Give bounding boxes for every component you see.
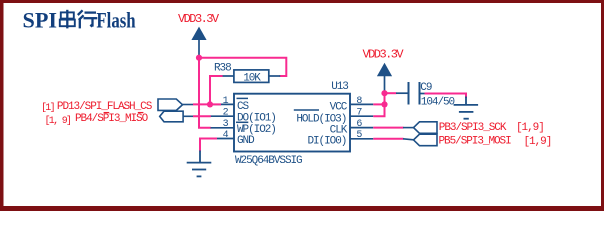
svg-text:GND: GND xyxy=(237,135,255,147)
pin name CS xyxy=(237,98,250,113)
pin name HOLD(IO3) xyxy=(294,110,347,126)
IC U13 W25Q64BVSSIG xyxy=(234,81,350,167)
port PB4/SPI3_MISO connector xyxy=(160,111,194,122)
junction node VDD right cap xyxy=(381,90,387,96)
svg-text:[1,9]: [1,9] xyxy=(516,122,544,134)
wire CS net pin1 xyxy=(193,103,221,105)
svg-text:[1, 9]: [1, 9] xyxy=(45,115,71,127)
wire VCC pin8 to node xyxy=(373,103,384,105)
pin 4 lead xyxy=(211,138,235,140)
label [1] PD13/SPI_FLASH_CS xyxy=(41,101,153,114)
svg-text:10K: 10K xyxy=(243,73,261,85)
svg-text:PB4/SPI3_MISO: PB4/SPI3_MISO xyxy=(75,113,149,125)
pin 2 lead xyxy=(211,115,235,117)
pin name DO(IO1) xyxy=(236,113,276,125)
svg-text:Flash: Flash xyxy=(96,8,135,33)
svg-text:[1,9]: [1,9] xyxy=(524,136,552,148)
svg-text:R38: R38 xyxy=(214,63,231,75)
pin 8 lead xyxy=(350,103,373,105)
wire VDD top horizontal to resistor right xyxy=(199,58,286,76)
svg-text:U13: U13 xyxy=(331,81,348,93)
svg-text:W25Q64BVSSIG: W25Q64BVSSIG xyxy=(235,155,302,167)
svg-text:VDD3.3V: VDD3.3V xyxy=(363,48,405,62)
port PD13/SPI_FLASH_CS connector xyxy=(158,99,193,110)
svg-text:104/50: 104/50 xyxy=(421,97,455,109)
label [1, 9] PB4/SPI3_MISO xyxy=(45,113,149,127)
pin 1 lead xyxy=(211,103,235,105)
power symbol VDD3.3V right xyxy=(377,63,392,92)
svg-text:VDD3.3V: VDD3.3V xyxy=(178,12,220,26)
pin 3 lead xyxy=(211,127,235,129)
svg-text:PB3/SPI3_SCK: PB3/SPI3_SCK xyxy=(439,122,507,134)
svg-text:6: 6 xyxy=(356,119,362,130)
svg-text:4: 4 xyxy=(223,130,229,141)
svg-text:CLK: CLK xyxy=(330,124,348,136)
svg-text:PB5/SPI3_MOSI: PB5/SPI3_MOSI xyxy=(439,136,512,148)
wire VDD drop to WP pin3 xyxy=(199,58,211,128)
wire resistor left to pin1 node xyxy=(210,76,223,104)
wire CLK pin6 xyxy=(373,127,403,129)
svg-text:DI(IO0): DI(IO0) xyxy=(307,136,346,148)
ground symbol right xyxy=(454,97,479,119)
svg-text:1: 1 xyxy=(223,96,229,107)
svg-text:7: 7 xyxy=(356,108,362,119)
svg-text:SPI: SPI xyxy=(23,8,58,33)
svg-text:PD13/SPI_FLASH_CS: PD13/SPI_FLASH_CS xyxy=(57,101,153,113)
port PB5/SPI3_MOSI connector xyxy=(403,134,437,146)
svg-text:3: 3 xyxy=(223,119,229,130)
pin 7 lead xyxy=(350,115,373,117)
svg-text:[1]: [1] xyxy=(41,102,54,114)
label PB5/SPI3_MOSI [1,9] xyxy=(439,136,552,148)
wire MOSI pin5 xyxy=(373,138,403,140)
svg-text:C9: C9 xyxy=(420,82,432,94)
svg-text:5: 5 xyxy=(356,130,362,141)
capacitor C9 xyxy=(396,82,455,109)
junction node pin1 CS xyxy=(207,101,213,107)
pin 6 lead xyxy=(350,127,373,129)
wire HOLD pin7 elbow up xyxy=(373,93,384,116)
wire GND pin4 elbow xyxy=(200,139,217,152)
power symbol VDD3.3V left xyxy=(191,27,206,55)
wire MISO net pin2 xyxy=(193,115,211,117)
title SPI串行Flash xyxy=(23,8,136,33)
port PB3/SPI3_SCK connector xyxy=(403,122,437,134)
junction node VDD-R38 xyxy=(196,55,202,61)
junction node pin8 VCC xyxy=(381,101,387,107)
svg-text:VCC: VCC xyxy=(330,101,348,113)
wire node to capacitor xyxy=(385,92,397,94)
svg-text:CS: CS xyxy=(237,101,250,113)
svg-text:8: 8 xyxy=(356,96,362,107)
pin 5 lead xyxy=(350,138,373,140)
svg-text:2: 2 xyxy=(223,108,229,119)
label PB3/SPI3_SCK [1,9] xyxy=(439,122,544,134)
ground symbol left xyxy=(187,151,212,177)
wire capacitor to ground right xyxy=(425,94,467,99)
resistor R38 xyxy=(214,63,280,85)
